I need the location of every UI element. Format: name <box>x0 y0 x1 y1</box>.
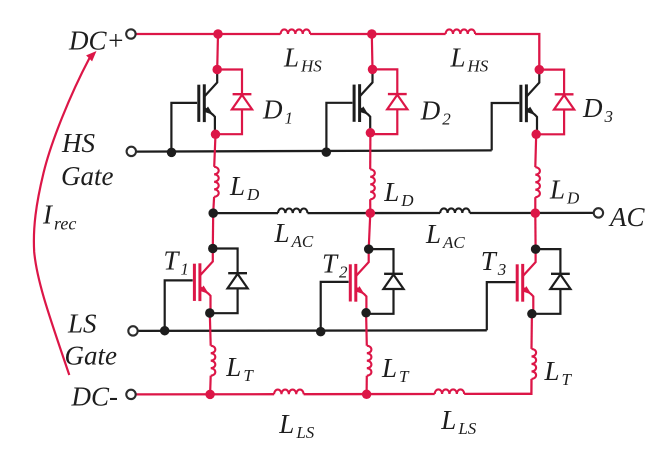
node black junction LS gate phase2 <box>316 327 326 337</box>
wire phase2 L_D to AC node <box>369 199 371 213</box>
svg-text:LT: LT <box>381 353 410 386</box>
inductor L_D phase3 coil <box>535 167 540 197</box>
svg-text:Gate: Gate <box>61 161 114 191</box>
terminal LS Gate <box>128 326 137 335</box>
svg-text:LAC: LAC <box>274 218 314 251</box>
svg-text:LD: LD <box>549 175 580 208</box>
diode of T2 (black) <box>367 249 404 314</box>
svg-text:AC: AC <box>608 202 645 232</box>
op IGBT high-side phase2 (black) <box>354 69 372 134</box>
diode D2 (red) <box>371 69 408 134</box>
terminal DC- <box>126 390 135 399</box>
node black junction T2 emitter <box>361 308 371 318</box>
inductor L_LS (phase1-2) coil <box>274 390 304 395</box>
inductor L_D phase2 coil <box>370 169 375 199</box>
svg-text:T1: T1 <box>163 246 189 279</box>
wire HS gate rail <box>136 150 492 151</box>
node red junction HS1 collector <box>212 65 222 75</box>
transistor T3 IGBT low-side (red) <box>517 249 535 314</box>
wire T3 emitter to L_T <box>530 314 533 349</box>
diode D1 (red) <box>215 70 252 135</box>
wire phase3 AC node to T3 collector <box>534 213 536 249</box>
node red junction DC- phase1 <box>205 390 215 400</box>
inductor L_AC (phase1-2) coil <box>278 209 308 214</box>
node red junction HS3 emitter <box>531 130 541 140</box>
node AC junction phase1 (black) <box>208 208 218 218</box>
wire phase1 L_D to AC node <box>212 197 215 213</box>
svg-text:LS: LS <box>67 308 97 338</box>
node black junction HS gate phase2 <box>322 147 332 157</box>
svg-text:DC-: DC- <box>71 382 119 412</box>
node black junction T1 collector <box>208 244 218 254</box>
terminal HS Gate <box>127 147 136 156</box>
wire DC- rail segment terminal to L_LS1 <box>136 393 274 395</box>
arrowhead of I_rec <box>86 51 96 61</box>
diode of T3 (black) <box>534 249 571 314</box>
op IGBT high-side phase1 (black) <box>199 70 217 135</box>
wire DC+ rail segment L_HS2 to phase3 corner <box>475 34 539 70</box>
wire T2 emitter to L_T <box>365 313 368 346</box>
transistor T2 IGBT low-side (red) <box>350 249 368 314</box>
svg-text:LLS: LLS <box>278 409 314 442</box>
node black junction T1 emitter <box>205 308 215 318</box>
node red junction HS2 collector <box>368 65 378 75</box>
wire phase1 emitter to L_D <box>214 134 215 167</box>
svg-text:DC+: DC+ <box>68 26 125 56</box>
svg-text:Gate: Gate <box>65 341 118 371</box>
wire DC- rail segment L_LS1 to L_LS2 <box>304 393 435 396</box>
wire phase2 leg DC+ to collector <box>371 34 374 69</box>
node red junction DC- phase2 <box>362 390 372 400</box>
wire phase3 emitter to L_D <box>534 134 537 167</box>
svg-text:T2: T2 <box>322 248 348 281</box>
wire phase1 AC node to T1 collector <box>212 213 215 248</box>
wire gate of T1 <box>165 280 193 330</box>
svg-text:D2: D2 <box>420 96 452 129</box>
node red junction HS1 emitter <box>211 130 221 140</box>
wire DC+ rail segment terminal to L_HS1 <box>136 33 281 35</box>
node red junction DC+ phase2 <box>367 29 377 39</box>
terminal DC+ <box>126 29 135 38</box>
diode D3 (red) <box>537 70 574 135</box>
node black junction T2 collector <box>364 244 374 254</box>
inductor L_HS (phase1-2) coil <box>281 29 311 34</box>
node black junction LS gate phase1 <box>160 326 170 336</box>
wire DC+ rail segment L_HS1 to L_HS2 <box>310 33 446 35</box>
svg-text:LD: LD <box>383 177 414 210</box>
node AC junction phase3 (red) <box>531 208 541 218</box>
inductor L_D phase1 coil <box>214 167 219 197</box>
transistor T1 IGBT low-side (red) <box>194 249 212 314</box>
wire gate of T2 <box>321 282 349 332</box>
wire phase3 L_T corner to DC- rail <box>464 379 531 394</box>
svg-text:LHS: LHS <box>283 43 322 76</box>
svg-text:T3: T3 <box>481 246 507 279</box>
node red junction DC+ phase1 <box>213 29 223 39</box>
node red junction HS3 collector <box>535 65 545 75</box>
wire phase1 leg DC+ to collector <box>216 34 219 70</box>
wire gate of T3 <box>487 282 516 330</box>
op IGBT high-side phase3 (black) <box>521 70 539 135</box>
wire gate of HS3 <box>492 103 520 150</box>
node black junction T3 emitter <box>527 309 537 319</box>
svg-text:LT: LT <box>225 352 254 385</box>
inductor L_AC (phase2-3) coil <box>440 208 470 213</box>
node red junction HS2 emitter <box>366 128 376 138</box>
wire T1 emitter to L_T <box>209 313 212 346</box>
arrow I_rec curved current path <box>34 58 90 375</box>
wire gate of HS1 <box>171 103 197 152</box>
wire gate of HS2 <box>326 103 352 152</box>
wire LS gate rail <box>138 329 487 332</box>
terminal AC <box>594 208 603 217</box>
node AC junction phase2 (red) <box>366 208 376 218</box>
svg-text:LLS: LLS <box>440 405 476 438</box>
svg-text:Irec: Irec <box>42 199 76 233</box>
wire phase3 L_D to AC node <box>534 197 536 213</box>
svg-text:LT: LT <box>544 356 573 389</box>
wire phase2 emitter to L_D <box>369 133 371 170</box>
wire AC rail segment L_AC2 to AC terminal <box>470 212 594 214</box>
node black junction HS gate phase1 <box>167 148 177 158</box>
svg-text:D3: D3 <box>582 93 613 126</box>
wire AC rail segment node1 to L_AC1 <box>213 212 278 214</box>
svg-text:D1: D1 <box>262 95 293 128</box>
wire phase2 L_T to DC- rail <box>366 376 368 395</box>
wire AC rail segment L_AC1 to L_AC2 <box>308 212 441 214</box>
wire phase1 L_T to DC- rail <box>209 376 212 395</box>
svg-text:LHS: LHS <box>450 42 489 75</box>
svg-text:LD: LD <box>229 171 260 204</box>
inductor L_HS (phase2-3) coil <box>446 29 476 34</box>
wire phase2 AC node to T2 collector <box>369 213 371 249</box>
svg-text:HS: HS <box>61 128 95 158</box>
inductor L_T phase2 coil <box>367 346 372 376</box>
diode of T1 (black) <box>211 249 248 314</box>
svg-text:LAC: LAC <box>425 219 465 252</box>
node black junction T3 collector <box>531 244 541 254</box>
inductor L_T phase3 coil <box>532 349 537 379</box>
inductor L_T phase1 coil <box>211 346 216 376</box>
inductor L_LS (phase2-3) coil <box>435 389 465 394</box>
